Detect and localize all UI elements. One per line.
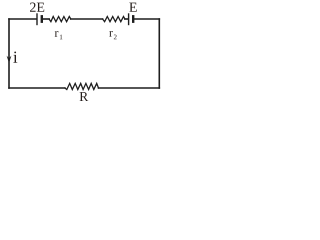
- label 2E (emf of battery B1): [30, 3, 44, 12]
- label E (emf of battery B2): [129, 3, 136, 12]
- wire top-right segment: [134, 18, 159, 20]
- battery B2 plate short (negative): [132, 16, 134, 21]
- resistor R zigzag: [65, 83, 99, 89]
- wire between battery B1 and resistor r1: [43, 18, 49, 20]
- label i (current): [13, 51, 17, 62]
- wire top-left segment: [9, 18, 36, 20]
- wire left side: [8, 19, 10, 88]
- label r2 (internal resistance 2): [109, 31, 113, 37]
- wire bottom-left segment: [9, 87, 65, 89]
- battery B1 plate long (positive): [36, 14, 38, 25]
- battery B2 plate long (positive): [128, 14, 130, 25]
- battery B1 plate short (negative): [41, 16, 43, 21]
- wire right side: [158, 19, 160, 88]
- label r1 (internal resistance 1): [55, 31, 59, 37]
- wire bottom-right segment: [99, 87, 160, 89]
- label R (load resistor): [80, 92, 89, 101]
- wire top-middle segment: [71, 18, 103, 20]
- current arrow i (arrowhead pointing down on left wire): [7, 56, 12, 64]
- wire between resistor r2 and battery B2: [125, 18, 128, 20]
- resistor r1 zigzag: [49, 17, 71, 22]
- resistor r2 zigzag: [103, 17, 125, 22]
